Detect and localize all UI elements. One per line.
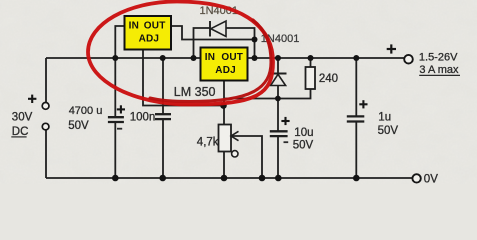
capacitor C1 4700u plates: [108, 117, 124, 122]
svg-text:IN: IN: [129, 21, 139, 32]
svg-text:240: 240: [319, 73, 338, 85]
svg-text:10u: 10u: [294, 127, 313, 139]
diode D2 1N4001 vertical: [270, 74, 287, 86]
svg-text:30V: 30V: [12, 111, 33, 123]
terminal output plus: [404, 55, 413, 64]
wire D2 bottom lead: [277, 86, 279, 99]
svg-text:4,7k: 4,7k: [197, 136, 219, 148]
wire C4 bottom lead: [355, 122, 357, 178]
capacitor C4 1u plates: [347, 116, 365, 121]
wire C2 bottom lead: [162, 119, 164, 178]
svg-text:ADJ: ADJ: [139, 34, 160, 45]
output plus sign: [387, 44, 396, 53]
svg-text:50V: 50V: [293, 140, 314, 152]
regulator U1 LM350 box: [125, 16, 172, 50]
svg-text:100n: 100n: [130, 112, 156, 124]
junction dot ADJ right: [275, 96, 281, 102]
wire R1 top lead: [310, 58, 312, 67]
C3 plus sign: [281, 117, 289, 125]
junction dots top bus: [112, 55, 359, 61]
C1 minus sign: [117, 128, 122, 130]
svg-text:1.5-26V: 1.5-26V: [419, 52, 458, 64]
DC underline: [11, 136, 26, 138]
paper background: [0, 0, 477, 184]
wire bottom 0V bus: [46, 177, 413, 179]
junction dot OUT tie: [252, 37, 258, 43]
terminal 0V: [412, 174, 420, 182]
wire U1 ADJ lead: [143, 50, 224, 106]
wire C4 top lead: [355, 58, 357, 116]
terminal input plus: [42, 103, 49, 110]
wire input plus riser: [45, 58, 47, 103]
wire pot bottom lead: [223, 152, 225, 179]
svg-text:OUT: OUT: [144, 21, 166, 32]
red highlight ellipse: [88, 2, 273, 105]
wire ADJ right branch: [224, 89, 311, 99]
wire diode loop right: [226, 28, 255, 58]
3 A max underline: [419, 74, 460, 76]
svg-text:1u: 1u: [378, 111, 391, 123]
capacitor C2 100n plates: [155, 114, 171, 119]
wire top positive bus: [46, 57, 404, 59]
regulator U2 LM350 box: [201, 48, 248, 81]
svg-text:4700 u: 4700 u: [69, 105, 103, 117]
capacitor C3 10u plates: [270, 131, 288, 136]
wire C1 bottom lead: [114, 122, 116, 178]
diode D1 1N4001 top: [210, 21, 226, 37]
svg-text:LM 350: LM 350: [174, 85, 216, 99]
wire C3 top lead: [277, 99, 279, 132]
wire D2 top lead: [277, 58, 279, 74]
svg-text:50V: 50V: [378, 125, 399, 137]
wire C2 top lead: [162, 58, 164, 114]
input plus sign: [28, 95, 36, 103]
wire C1 top lead: [114, 58, 116, 117]
C4 plus sign: [359, 100, 367, 108]
wire U2 ADJ vertical: [223, 81, 225, 125]
svg-text:ADJ: ADJ: [215, 65, 236, 76]
wire input minus drop: [45, 130, 47, 178]
wire C3 bottom lead: [277, 136, 279, 178]
junction dot ADJ left: [220, 102, 227, 109]
resistor R1 240: [306, 67, 316, 89]
svg-text:3 A max: 3 A max: [419, 64, 459, 76]
wire pot wiper arm: [231, 136, 262, 178]
svg-text:OUT: OUT: [221, 52, 243, 63]
svg-text:0V: 0V: [424, 174, 438, 184]
C1 plus sign: [117, 105, 125, 113]
wire diode loop left: [194, 28, 211, 58]
potentiometer P1 4,7k: [219, 125, 239, 158]
junction dots bottom bus: [112, 175, 360, 182]
wire U1 OUT lead: [171, 26, 255, 40]
svg-text:DC: DC: [12, 126, 29, 138]
svg-text:IN: IN: [205, 52, 215, 63]
C3 minus sign: [284, 141, 289, 143]
terminal input minus: [42, 123, 49, 130]
svg-text:50V: 50V: [68, 120, 89, 132]
wire U1 IN lead: [115, 26, 124, 58]
